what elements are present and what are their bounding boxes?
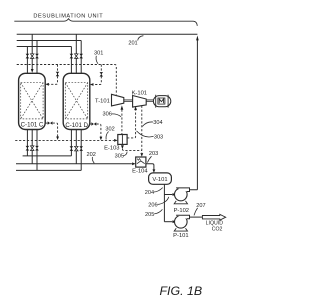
pointer 202 (92, 157, 94, 163)
bottom header B2 (202 line) (16, 163, 132, 165)
valve bottom C1 (filled) (26, 146, 30, 151)
valve bottom C3 (filled) (35, 146, 39, 151)
svg-text:302: 302 (105, 127, 114, 133)
arrow down into E-104 top (140, 153, 143, 157)
V-101 outlet down (163, 184, 165, 221)
dashed 306 line E-103 top to T-101 (121, 110, 123, 135)
svg-text:P-101: P-101 (173, 233, 188, 239)
arrow down out of E-103 bottom (121, 145, 124, 149)
vessel C-101 D (63, 73, 90, 129)
dashed line 301 (17, 65, 117, 95)
pipe from H1 to vessel D top (75, 34, 77, 75)
pointer 301 (96, 56, 98, 64)
valve top C1 (filled) (26, 54, 30, 59)
bottom pipes vessel C (26, 129, 28, 156)
pointer 302 (106, 132, 109, 140)
arrow up into 201 header (196, 36, 199, 41)
valve top D3 (filled) (79, 54, 83, 59)
header H1 (201 line) (17, 33, 198, 35)
vessel C-101 C (19, 73, 46, 129)
P-102 discharge (190, 40, 198, 190)
flash drum V-101 (149, 173, 172, 184)
arrow up into T-101 (121, 105, 124, 109)
valve bottom D3 (filled) (79, 146, 83, 151)
pump P-102 (175, 188, 188, 201)
pipe from H3 to vessel D top (70, 47, 72, 75)
motor M body (153, 96, 170, 107)
E-104 coil zigzag (137, 159, 140, 161)
vessel C side outlet stub (45, 122, 47, 124)
pointer 306 (112, 114, 121, 117)
svg-text:CO2: CO2 (212, 226, 223, 232)
pointer 204 (154, 188, 163, 192)
pointer 201 (138, 36, 144, 41)
dashed 303 line E-103 right to K-101 (127, 110, 136, 138)
valve on drop C (filled) (56, 72, 60, 76)
valve top D1 (filled) (70, 54, 74, 59)
dashed line 302 (15, 139, 114, 141)
heat exchanger E-103 (118, 135, 127, 145)
bottom header B1 (23, 155, 72, 157)
header H2 (17, 40, 82, 42)
pump P-101 (175, 216, 188, 229)
valve bottom D2 (open) (75, 146, 79, 151)
arrow into V-101 top (153, 169, 156, 173)
vessel D side outlet stub (90, 123, 91, 125)
arrow into vessel C side (45, 83, 49, 86)
svg-text:201: 201 (128, 40, 137, 46)
pipe from H2 to vessel D top (80, 41, 82, 75)
arrow into vessel C top (31, 69, 34, 73)
valve bottom D1 (filled) (70, 146, 74, 151)
liquid CO2 block arrow (202, 214, 225, 220)
pipe from H3 to vessel C top (26, 47, 28, 75)
line E-104 to V-101 (146, 164, 154, 170)
dashed 304 line K-101 to E-104 (141, 106, 143, 153)
svg-text:E-103: E-103 (104, 145, 119, 151)
svg-text:202: 202 (87, 152, 96, 158)
valve top C2 (open) (30, 54, 34, 59)
svg-text:K-101: K-101 (132, 90, 147, 96)
pointer 205 (154, 209, 162, 214)
svg-text:205: 205 (145, 212, 154, 218)
header H3 (17, 46, 72, 48)
dashed drop to vessel C side (49, 65, 58, 85)
compressor K-101 (133, 96, 147, 108)
svg-text:304: 304 (153, 120, 162, 126)
valve on drop D (filled) (100, 72, 104, 76)
branch to P-102 (164, 194, 172, 196)
dashed from valve D down to 302 (97, 124, 101, 137)
svg-text:V-101: V-101 (152, 177, 167, 183)
svg-text:303: 303 (154, 135, 163, 141)
pipe from H1 to vessel C top (31, 34, 33, 69)
arrow down to 302 line (D) (100, 137, 103, 141)
valve top D2 (open) (75, 54, 79, 59)
valve bottom C2 (open) (30, 146, 34, 151)
svg-text:204: 204 (145, 190, 154, 196)
bottom pipes vessel D (70, 129, 72, 156)
svg-text:E-104: E-104 (132, 169, 148, 175)
bottom header B3 (16, 169, 81, 171)
pointer 304 (142, 122, 153, 127)
motor end ticks (156, 95, 168, 108)
arrow into vessel D side (90, 83, 94, 86)
shaft K101-M (146, 100, 153, 101)
svg-text:T-101: T-101 (95, 98, 110, 104)
svg-text:306: 306 (103, 112, 112, 118)
pointer 305 (124, 152, 128, 156)
dashed drop to vessel D side (94, 65, 102, 85)
packing box D (65, 83, 87, 119)
motor M box (158, 98, 165, 104)
pointer 207 (194, 208, 198, 216)
arrow into P-101 (173, 220, 177, 223)
pointer 206 (157, 197, 168, 205)
pointer 303 (137, 131, 154, 137)
arrow into E-104 left (132, 162, 136, 165)
svg-text:FIG. 1B: FIG. 1B (159, 284, 202, 298)
svg-text:301: 301 (94, 50, 103, 56)
dashed from valve C down to 302 (53, 123, 58, 137)
svg-text:206: 206 (148, 202, 157, 208)
arrow up into K-101 (134, 106, 137, 110)
svg-text:203: 203 (149, 151, 158, 157)
svg-text:P-102: P-102 (174, 208, 189, 214)
P-101 inlet (164, 221, 172, 223)
shaft T101-K101 (124, 100, 133, 101)
svg-text:305: 305 (115, 154, 124, 160)
arrow into E-103 left (114, 139, 118, 142)
bracket line with center peak (14, 19, 197, 26)
pointer 203 (147, 156, 151, 162)
turbine T-101 (112, 94, 124, 106)
valve side D (filled horizontal) (91, 122, 96, 125)
valve side C (filled horizontal) (48, 121, 53, 124)
heat exchanger E-104 (136, 157, 146, 167)
svg-text:C-101 C: C-101 C (21, 122, 44, 129)
dashed 305 line E-103 bottom to 304 line (122, 149, 141, 151)
svg-text:C-101 D: C-101 D (65, 122, 88, 129)
P-101 discharge (190, 216, 203, 218)
pipe from H2 to vessel C top (36, 41, 38, 75)
arrow into P-102 (173, 193, 177, 196)
arrow down to 302 line (C) (56, 137, 59, 141)
packing box C (21, 83, 43, 119)
valve top C3 (filled) (35, 54, 39, 59)
